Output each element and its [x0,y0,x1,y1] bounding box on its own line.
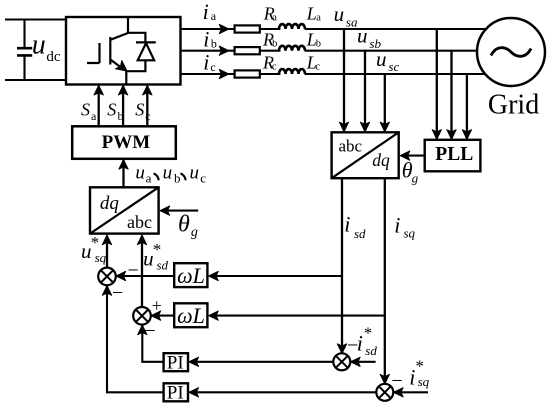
inductor Lc [279,69,305,74]
svg-text:sc: sc [388,59,399,74]
sine symbol inside grid circle [491,48,531,57]
dq to abc transform box [90,187,159,233]
label theta_g at dq-abc input [178,212,198,241]
label u_sc [376,47,399,74]
svg-text:PLL: PLL [435,144,473,165]
label PWM [102,132,151,153]
svg-text:c: c [210,60,215,74]
svg-text:u: u [357,24,368,48]
wire: Sb PWM to inverter [122,86,124,126]
transistor Q1 (IGBT) [87,17,128,69]
label PI 2 [167,383,184,404]
svg-text:i: i [203,26,209,51]
svg-text:PWM: PWM [102,132,151,153]
wire La to grid [305,28,487,30]
svg-text:−: − [112,282,123,304]
svg-text:−: − [128,259,139,281]
svg-text:a: a [91,109,97,123]
svg-text:a: a [272,13,277,24]
svg-text:c: c [315,62,320,73]
resistor Rb [235,47,260,54]
PI box 1 [164,353,188,371]
wire Rb to Lb [260,50,281,52]
arrowhead PLL tap c [462,130,471,140]
svg-text:PI: PI [167,353,184,374]
svg-text:sq: sq [418,374,430,389]
label R_b [262,29,277,49]
label S_b [107,100,123,123]
label u_b [163,162,181,185]
summing junction 2 [133,307,151,325]
wire: junction 2 up to dq-abc (u_sd*) [141,236,143,308]
arrowhead Sc [143,85,152,95]
arrowhead theta_g [400,151,410,160]
label plus at junction 2 right input [152,296,162,316]
arrowhead into omega-L 1 [209,271,219,280]
wire: dq-abc to PWM [122,160,124,187]
arrowhead Sb [118,85,127,95]
arrowhead tap a [339,122,348,132]
summing junction 1 [98,268,116,286]
arrowhead tap c [380,122,389,132]
label S_c [135,100,150,123]
label dq in dq-abc box [100,193,120,214]
svg-text:u: u [32,30,46,61]
label minus at junction 1 right input [128,259,139,281]
svg-text:S: S [135,100,144,120]
svg-text:u: u [334,2,345,26]
arrowhead into PI 2 [189,388,199,397]
svg-text:i: i [357,331,363,356]
svg-text:a: a [211,9,217,23]
wire Lb to grid [305,50,478,52]
label u_a [135,162,151,185]
svg-text:i: i [203,50,209,75]
svg-text:sq: sq [95,250,107,265]
label -i_sd* [347,323,377,358]
label i_a [203,0,217,24]
svg-text:abc: abc [339,137,363,156]
svg-text:θ: θ [178,212,190,238]
svg-text:g: g [412,170,419,185]
wire: tap phase a to abc-dq [343,29,345,131]
label Grid [488,90,539,121]
wire: tap phase a to PLL [436,29,438,139]
wire: -i_sq* reference stub [395,391,429,393]
inductor La [279,24,305,29]
ideographic comma 1 [154,174,158,180]
svg-text:i: i [203,0,209,24]
arrowhead PLL tap b [447,130,456,140]
wire: PI 1 output to junction 2 [142,326,163,362]
label theta_g at PLL output [402,157,419,185]
label minus at junction 1 bottom input [112,282,123,304]
inductor Lb [279,46,305,51]
arrowhead -i_sd* into junction 3 [350,357,360,366]
wire: i_sd branch to omega-L 1 [210,275,343,277]
svg-text:ωL: ωL [177,303,205,328]
label L_c [306,53,321,73]
capacitor Cdc [17,20,32,81]
svg-text:i: i [394,213,400,238]
label S_a [81,100,97,123]
arrowhead into junction 1 [116,271,126,280]
svg-text:*: * [364,323,373,342]
PI box 2 [164,383,188,401]
resistor Rc [235,70,260,77]
PLL box [425,140,481,172]
label u_dc [32,30,61,65]
arrowhead into junction 2 [151,311,161,320]
wire: junction 4 to PI 2 [190,391,377,393]
arrowhead phase c [219,69,229,78]
svg-text:−: − [144,320,155,342]
svg-text:ωL: ωL [177,263,205,288]
arrowhead u_sd* into dq-abc [137,235,146,245]
summing junction 3 [333,353,350,370]
wire: junction 3 to PI 1 [190,361,334,363]
arrowhead -i_sq* into junction 4 [393,388,403,397]
svg-text:i: i [344,212,350,237]
svg-text:u: u [376,47,387,71]
label u_c [190,162,207,185]
svg-text:b: b [316,38,321,49]
svg-text:c: c [145,109,150,123]
label R_a [263,4,278,24]
label L_a [306,4,322,24]
arrowhead into omega-L 2 [209,311,219,320]
wire: theta_g into dq-abc [161,210,198,212]
label u_sd* [143,240,168,272]
svg-text:g: g [191,225,198,240]
arrowhead into PWM [119,159,128,169]
svg-text:dq: dq [100,193,120,214]
arrowhead PLL tap a [432,130,441,140]
svg-text:S: S [81,100,90,120]
label abc in dq-abc box [127,212,152,232]
svg-text:+: + [152,296,162,316]
svg-text:S: S [107,100,116,120]
label PI 1 [167,353,184,374]
omega-L box 1 [174,263,207,287]
label i_c [203,50,215,75]
svg-text:b: b [272,38,277,49]
wire: tap phase c to abc-dq [384,74,386,131]
svg-text:u: u [190,162,200,183]
wire: theta_g PLL to abc-dq [401,155,425,157]
svg-text:*: * [416,357,425,376]
svg-text:a: a [316,13,321,24]
label u_sb [357,24,381,51]
PWM box [72,126,176,159]
svg-text:u: u [143,246,154,270]
wire: DC bus top rail [5,18,66,20]
wire: omega-L 1 to junction 1 [117,275,175,277]
svg-text:sd: sd [365,343,377,358]
label minus at junction 2 bottom input [144,320,155,342]
arrowhead theta_g into dq-abc [160,206,170,215]
wire: Sa PWM to inverter [98,86,100,126]
label i_sq [394,213,415,241]
svg-text:u: u [81,239,92,263]
label omega-L 2 [177,303,205,328]
label dq in abc-dq box [372,150,390,170]
arrowhead i_sq into junction 4 [380,374,389,384]
wire: -i_sd* reference stub [352,361,376,363]
wire: tap phase c to PLL [466,74,468,139]
resistor Ra [235,25,260,32]
label -i_sq* [391,357,429,392]
arrowhead into PI 1 [189,357,199,366]
inverter box [66,17,181,85]
svg-text:Grid: Grid [488,90,539,121]
wire: i_sd vertical [341,178,343,353]
svg-text:sd: sd [157,257,169,272]
wire: phase c output [181,73,236,75]
label u_sa [334,2,358,30]
label i_sd [344,212,366,241]
wire: tap phase b to abc-dq [364,51,366,131]
wire Lc to grid [305,73,486,75]
wire: DC bus bottom rail [5,79,66,81]
svg-text:L: L [306,4,317,24]
svg-text:dc: dc [46,49,61,65]
svg-text:PI: PI [167,383,184,404]
arrowhead phase b [219,46,229,55]
wire: Sc PWM to inverter [146,86,148,126]
svg-text:*: * [153,240,162,259]
arrowhead PI 1 into junction 2 [138,325,147,335]
svg-text:i: i [409,365,415,390]
abc to dq transform box [332,132,399,178]
svg-text:u: u [135,162,145,183]
label abc in abc-dq box [339,137,363,156]
svg-text:abc: abc [127,212,152,232]
wire Ra to La [260,28,281,30]
IGBT emitter arrowhead [116,61,128,72]
grid source circle [477,18,545,86]
svg-text:c: c [200,171,206,186]
wire: junction 1 up to dq-abc (u_sq*) [106,236,108,268]
svg-text:−: − [391,370,402,392]
ideographic comma 2 [181,174,185,180]
omega-L box 2 [174,303,207,327]
wire: i_sq vertical [384,178,386,384]
label PLL [435,144,473,165]
svg-text:sd: sd [354,226,366,241]
svg-text:b: b [118,109,124,123]
wire: tap phase b to PLL [450,51,452,139]
label L_b [306,29,321,49]
summing junction 4 [376,384,393,401]
svg-text:c: c [272,62,277,73]
arrowhead u_sq* into dq-abc [102,235,111,245]
svg-text:a: a [146,171,152,186]
wire: phase b output [181,50,236,52]
label omega-L 1 [177,263,205,288]
diode D1 (anti-parallel) [126,33,156,71]
wire: i_sq branch to omega-L 2 [210,315,385,317]
label u_sq* [81,233,107,265]
wire: PI 2 output to junction 1 [107,286,164,392]
svg-text:dq: dq [372,150,390,170]
arrowhead i_sd into junction 3 [337,344,346,354]
wire: phase a output [181,28,236,30]
arrowhead PI 2 into junction 1 [102,286,111,296]
svg-text:u: u [163,162,173,183]
label i_b [203,26,217,51]
wire Rc to Lc [260,73,281,75]
svg-text:sq: sq [404,225,416,240]
wire: omega-L 2 to junction 2 [152,315,175,317]
svg-text:b: b [211,37,217,51]
wire: emitter to box bottom [125,71,127,85]
arrowhead Sa [94,85,103,95]
label R_c [262,53,277,73]
svg-text:b: b [174,171,181,186]
arrowhead tap b [360,122,369,132]
arrowhead phase a [219,24,229,33]
